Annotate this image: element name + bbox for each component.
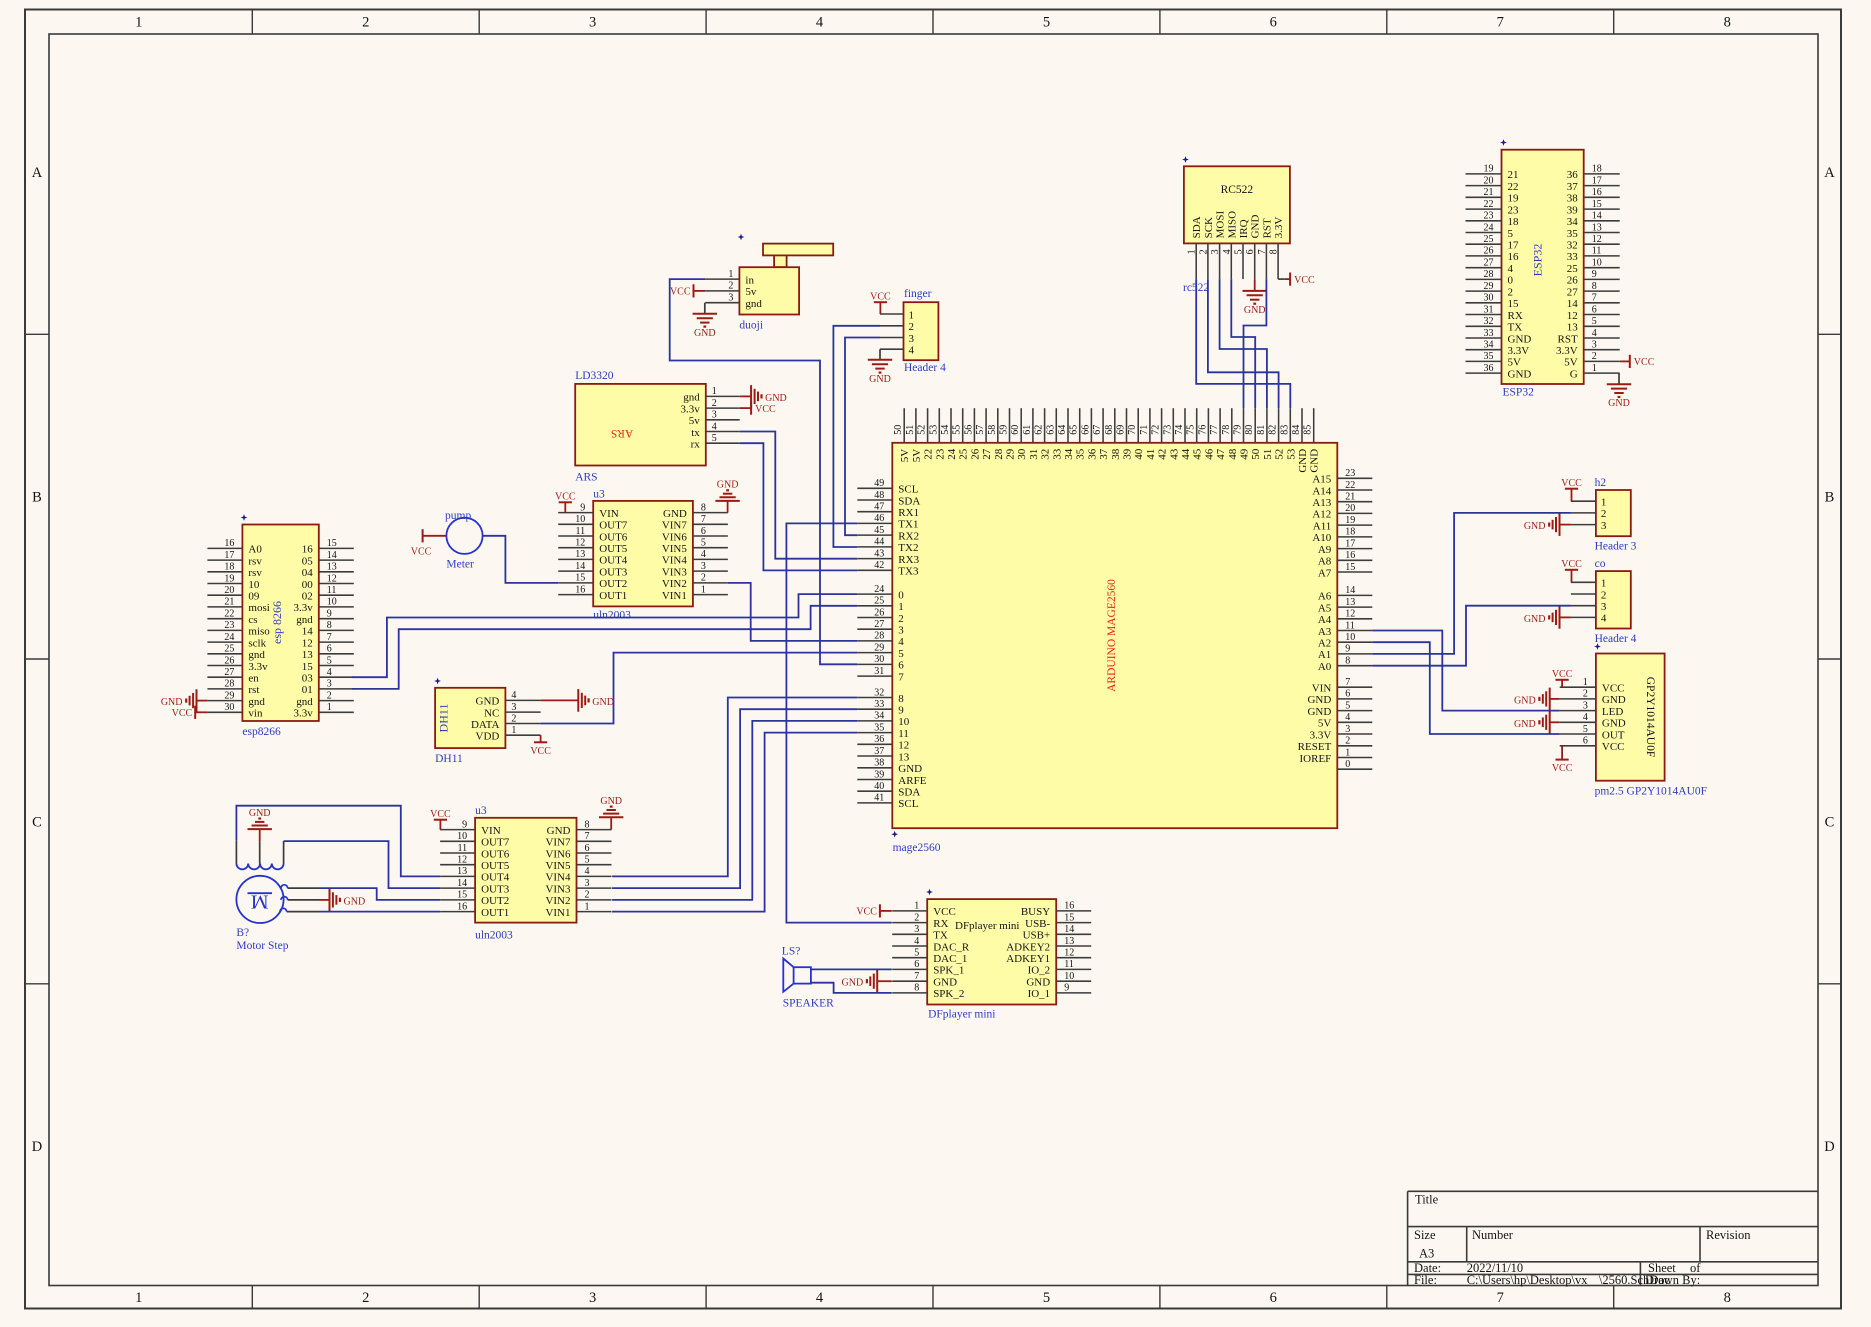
wire motor bottom terminal to u3-lower.16 OUT1 (280, 908, 287, 911)
svg-text:16: 16 (575, 584, 585, 595)
svg-text:OUT2: OUT2 (481, 895, 509, 907)
IC esp8266 (207, 514, 353, 738)
svg-text:3: 3 (327, 679, 332, 690)
svg-text:59: 59 (999, 425, 1010, 435)
GND port at motor middle terminal (329, 889, 331, 912)
svg-text:15: 15 (575, 573, 585, 584)
svg-text:43: 43 (1168, 448, 1180, 460)
RC522 bottom pins 1-8 (1195, 243, 1197, 279)
svg-text:40: 40 (1133, 448, 1145, 460)
svg-text:2: 2 (362, 1290, 369, 1306)
DFplayer left pins (892, 910, 927, 912)
svg-text:6: 6 (1245, 249, 1256, 254)
mage2560 right pins 14-8 A6-A0 (1337, 594, 1372, 596)
svg-text:36: 36 (874, 734, 884, 745)
wire RC522.4 MISO to mage2560.80 (1231, 279, 1255, 408)
VCC port below GP2Y pin 6 (1561, 746, 1563, 760)
svg-text:54: 54 (940, 425, 951, 435)
connector finger Header 4 (880, 288, 946, 374)
svg-text:85: 85 (1303, 425, 1314, 435)
svg-text:10: 10 (1345, 632, 1355, 643)
svg-text:5: 5 (1583, 724, 1588, 735)
svg-text:OUT6: OUT6 (481, 848, 510, 860)
svg-text:82: 82 (1268, 425, 1279, 435)
svg-text:5: 5 (701, 538, 706, 549)
wire ARS.5 rx to mage2560.42 TX3 (740, 443, 858, 570)
svg-text:1: 1 (701, 584, 706, 595)
svg-text:9: 9 (1592, 269, 1597, 280)
svg-text:24: 24 (1484, 222, 1494, 233)
svg-text:A5: A5 (1318, 602, 1332, 614)
svg-text:M: M (251, 890, 269, 912)
svg-text:2: 2 (1345, 736, 1350, 747)
svg-text:15: 15 (457, 890, 467, 901)
svg-text:GND: GND (1508, 368, 1532, 380)
svg-text:22: 22 (1508, 181, 1519, 193)
svg-text:Title: Title (1415, 1193, 1439, 1207)
svg-text:GND: GND (547, 825, 571, 837)
svg-text:1: 1 (327, 702, 332, 713)
svg-text:51: 51 (1262, 449, 1274, 460)
svg-text:esp8266: esp8266 (242, 726, 281, 738)
svg-text:16: 16 (1508, 251, 1520, 263)
svg-text:GND: GND (898, 763, 922, 775)
svg-text:38: 38 (874, 758, 884, 769)
svg-text:u3: u3 (475, 805, 487, 817)
svg-text:21: 21 (224, 597, 234, 608)
svg-text:21: 21 (1508, 169, 1519, 181)
DFplayer right pins (1056, 910, 1091, 912)
svg-text:01: 01 (302, 684, 313, 696)
svg-text:2: 2 (1508, 286, 1514, 298)
svg-text:11: 11 (1592, 246, 1602, 257)
svg-text:ADKEY1: ADKEY1 (1006, 953, 1050, 965)
svg-text:4: 4 (511, 690, 516, 701)
svg-text:A15: A15 (1312, 474, 1331, 486)
svg-text:5: 5 (585, 855, 590, 866)
wire u3 lower pin8 to GND (610, 817, 612, 829)
svg-text:ARDUINO MAGE2560: ARDUINO MAGE2560 (1106, 579, 1118, 692)
svg-text:3: 3 (909, 333, 915, 345)
svg-text:USB-: USB- (1025, 918, 1050, 930)
svg-text:A4: A4 (1318, 614, 1332, 626)
svg-text:OUT2: OUT2 (599, 578, 627, 590)
svg-text:44: 44 (1180, 448, 1192, 460)
svg-text:2: 2 (712, 398, 717, 409)
wire motor top terminal to u3-lower.15 OUT2 (281, 885, 288, 888)
svg-text:26: 26 (1484, 246, 1494, 257)
svg-text:VIN6: VIN6 (662, 531, 688, 543)
DFplayer body (927, 899, 1056, 1004)
svg-text:13: 13 (898, 751, 910, 763)
svg-text:GND: GND (476, 696, 500, 708)
svg-text:VIN6: VIN6 (545, 848, 571, 860)
svg-text:VCC: VCC (1552, 763, 1573, 774)
wire motor middle terminal to GND (281, 897, 288, 900)
svg-text:75: 75 (1186, 425, 1197, 435)
svg-text:34: 34 (1567, 216, 1579, 228)
svg-text:80: 80 (1244, 425, 1255, 435)
svg-text:2: 2 (1583, 689, 1588, 700)
svg-text:48: 48 (874, 490, 884, 501)
svg-text:13: 13 (1064, 936, 1074, 947)
svg-text:OUT5: OUT5 (481, 860, 510, 872)
wire u3-lower.2 VIN2 to mage2560.34 pin10 (612, 721, 857, 900)
svg-text:27: 27 (1484, 258, 1494, 269)
svg-text:50: 50 (1250, 448, 1262, 460)
ESP32 left pins (1466, 173, 1502, 175)
mage2560 star marker (891, 831, 898, 838)
svg-text:5: 5 (1345, 700, 1350, 711)
svg-text:6: 6 (1583, 736, 1588, 747)
svg-text:14: 14 (1592, 211, 1602, 222)
svg-text:VCC: VCC (1294, 275, 1315, 286)
wire coil right to u3-lower.14 OUT3 (283, 841, 285, 863)
svg-text:LS?: LS? (782, 946, 801, 958)
svg-text:3.3v: 3.3v (294, 708, 314, 720)
svg-text:48: 48 (1227, 448, 1239, 460)
svg-text:Header 4: Header 4 (904, 362, 946, 374)
svg-text:2: 2 (898, 613, 904, 625)
svg-text:LD3320: LD3320 (575, 370, 614, 382)
svg-text:3: 3 (1601, 520, 1607, 532)
svg-text:GND: GND (765, 393, 787, 404)
svg-text:23: 23 (1345, 468, 1355, 479)
svg-text:0: 0 (1345, 759, 1350, 770)
svg-text:4: 4 (898, 636, 904, 648)
svg-text:A8: A8 (1318, 556, 1332, 568)
svg-text:gnd: gnd (248, 649, 265, 661)
svg-text:9: 9 (1345, 644, 1350, 655)
svg-text:GND: GND (1026, 977, 1050, 989)
svg-text:16: 16 (224, 538, 234, 549)
svg-text:gnd: gnd (296, 696, 313, 708)
svg-text:BUSY: BUSY (1021, 906, 1050, 918)
svg-text:3.3V: 3.3V (1273, 217, 1285, 239)
svg-text:RX: RX (1508, 310, 1523, 322)
DH11 body (435, 688, 505, 748)
wire mage2560.10 A2 to GP2Y.5 OUT (1372, 642, 1559, 734)
svg-text:VCC: VCC (555, 492, 576, 503)
svg-text:Header 3: Header 3 (1595, 541, 1637, 553)
h2 body (1596, 490, 1631, 536)
svg-text:7: 7 (585, 831, 590, 842)
svg-text:40: 40 (874, 781, 884, 792)
svg-text:33: 33 (1051, 448, 1063, 460)
wire esp8266.3 01 to mage2560.25 pin1 (352, 606, 857, 689)
svg-text:A6: A6 (1318, 591, 1332, 603)
svg-text:DAC_1: DAC_1 (933, 953, 967, 965)
svg-text:3: 3 (1601, 601, 1607, 613)
svg-text:7: 7 (898, 671, 904, 683)
svg-text:A14: A14 (1312, 485, 1331, 497)
co pins 1-4 (1571, 581, 1596, 583)
svg-text:3.3V: 3.3V (1508, 345, 1530, 357)
svg-text:TX1: TX1 (898, 519, 918, 531)
svg-text:16: 16 (1592, 187, 1602, 198)
svg-text:5V: 5V (911, 449, 923, 463)
svg-text:3.3v: 3.3v (248, 661, 268, 673)
svg-text:74: 74 (1174, 425, 1185, 435)
svg-text:34: 34 (874, 711, 884, 722)
GND port at DH11 pin 4 (577, 689, 579, 712)
VCC port at u3 upper pin 9 (559, 501, 572, 503)
svg-text:TX: TX (933, 930, 948, 942)
svg-text:B: B (32, 490, 42, 506)
wire mage2560.11 A3 to GP2Y.3 LED (1372, 631, 1559, 711)
svg-text:10: 10 (327, 597, 337, 608)
svg-text:11: 11 (576, 526, 586, 537)
u3-upper left pins (558, 512, 593, 514)
duoji horn bar (763, 244, 833, 256)
svg-text:11: 11 (327, 585, 337, 596)
svg-text:GND: GND (1514, 719, 1536, 730)
mage2560 top pins 50-85 (903, 408, 905, 443)
column zone ticks (251, 10, 253, 35)
svg-text:8: 8 (1724, 15, 1731, 31)
svg-text:gnd: gnd (248, 696, 265, 708)
svg-text:SCL: SCL (898, 798, 918, 810)
svg-text:17: 17 (224, 550, 234, 561)
svg-text:mosi: mosi (248, 602, 269, 614)
svg-text:49: 49 (1239, 448, 1251, 460)
svg-text:ESP32: ESP32 (1531, 244, 1545, 277)
wire finger.2 to mage2560.44 TX2 (833, 326, 880, 547)
svg-text:co: co (1595, 558, 1606, 570)
ESP32 star marker (1500, 139, 1507, 146)
wire coil center tap to GND (259, 841, 261, 863)
svg-text:cs: cs (248, 614, 257, 626)
svg-text:pm2.5 GP2Y1014AU0F: pm2.5 GP2Y1014AU0F (1595, 786, 1707, 798)
svg-text:ADKEY2: ADKEY2 (1006, 941, 1050, 953)
svg-text:23: 23 (1508, 204, 1520, 216)
u3-upper body (593, 501, 693, 607)
svg-text:VCC: VCC (755, 404, 776, 415)
svg-text:VCC: VCC (1634, 357, 1655, 368)
svg-text:39: 39 (1567, 204, 1579, 216)
svg-text:GND: GND (1602, 694, 1626, 706)
svg-text:56: 56 (963, 425, 974, 435)
svg-text:64: 64 (1057, 425, 1068, 435)
svg-text:32: 32 (1484, 316, 1494, 327)
svg-text:12: 12 (1345, 609, 1355, 620)
svg-text:A: A (1824, 165, 1835, 181)
svg-text:4: 4 (1508, 263, 1514, 275)
svg-text:5: 5 (1234, 249, 1245, 254)
svg-text:78: 78 (1221, 425, 1232, 435)
svg-text:GND: GND (717, 480, 739, 491)
svg-text:17: 17 (1508, 240, 1520, 252)
svg-text:15: 15 (327, 538, 337, 549)
svg-text:22: 22 (923, 449, 935, 460)
svg-text:A13: A13 (1312, 497, 1331, 509)
svg-text:ARFE: ARFE (898, 775, 926, 787)
svg-text:4: 4 (1592, 328, 1597, 339)
svg-text:19: 19 (224, 573, 234, 584)
title block (1408, 1190, 1818, 1192)
svg-text:5V: 5V (1564, 357, 1578, 369)
svg-text:OUT3: OUT3 (599, 566, 628, 578)
svg-text:2: 2 (362, 15, 369, 31)
DH11 star marker (434, 678, 441, 685)
svg-text:28: 28 (224, 679, 234, 690)
svg-text:41: 41 (1145, 449, 1157, 460)
svg-text:15: 15 (1064, 912, 1074, 923)
svg-text:11: 11 (457, 843, 467, 854)
svg-text:VIN: VIN (599, 508, 619, 520)
svg-text:3: 3 (914, 924, 919, 935)
svg-text:62: 62 (1034, 425, 1045, 435)
svg-text:2: 2 (909, 321, 915, 333)
svg-text:5: 5 (1592, 316, 1597, 327)
esp8266 left pins (207, 547, 242, 549)
svg-text:h2: h2 (1595, 477, 1607, 489)
svg-text:A7: A7 (1318, 567, 1332, 579)
svg-text:5: 5 (1043, 1290, 1050, 1306)
svg-text:7: 7 (1497, 1290, 1504, 1306)
svg-text:3: 3 (712, 410, 717, 421)
svg-text:VCC: VCC (430, 809, 451, 820)
mage2560 right pins 7-0 power (1337, 686, 1372, 688)
svg-text:83: 83 (1279, 425, 1290, 435)
svg-text:OUT4: OUT4 (599, 555, 628, 567)
svg-text:SDA: SDA (898, 495, 920, 507)
svg-text:6: 6 (898, 660, 904, 672)
svg-text:68: 68 (1104, 425, 1115, 435)
svg-text:3: 3 (589, 15, 596, 31)
mage2560 left pins 49-42 SCL SDA RX1 TX1 RX2 TX2 RX3 TX3 (857, 487, 892, 489)
mage2560 body (892, 443, 1337, 828)
svg-text:18: 18 (1592, 164, 1602, 175)
wire esp8266.4 03 to mage2560.24 pin0 (352, 594, 857, 677)
svg-text:3: 3 (585, 878, 590, 889)
esp8266 right pins (319, 547, 354, 549)
svg-text:OUT1: OUT1 (599, 590, 627, 602)
svg-text:34: 34 (1063, 448, 1075, 460)
svg-text:DH11: DH11 (437, 704, 451, 733)
svg-text:4: 4 (585, 866, 590, 877)
svg-text:D: D (1824, 1139, 1834, 1155)
svg-text:1: 1 (1187, 249, 1198, 254)
svg-text:sclk: sclk (248, 637, 266, 649)
svg-text:14: 14 (1567, 298, 1579, 310)
svg-text:TX2: TX2 (898, 542, 918, 554)
svg-text:27: 27 (1567, 286, 1579, 298)
svg-text:36: 36 (1086, 448, 1098, 460)
svg-text:13: 13 (575, 549, 585, 560)
svg-text:57: 57 (975, 425, 986, 435)
svg-text:A3: A3 (1419, 1247, 1434, 1261)
svg-text:OUT4: OUT4 (481, 872, 510, 884)
svg-text:VCC: VCC (530, 746, 551, 757)
wire u3-lower.3 VIN3 to mage2560.33 pin9 (612, 709, 857, 888)
svg-text:73: 73 (1162, 425, 1173, 435)
svg-text:GND: GND (1309, 449, 1321, 473)
svg-text:3: 3 (728, 293, 733, 304)
svg-text:DFplayer mini: DFplayer mini (955, 920, 1019, 932)
svg-text:gnd: gnd (683, 392, 700, 404)
GND port at DFplayer pin 7 (876, 970, 878, 993)
GND port above motor coil (248, 828, 272, 830)
VCC port at u3 lower pin 9 (434, 819, 447, 821)
svg-text:LED: LED (1602, 706, 1623, 718)
svg-text:6: 6 (701, 526, 706, 537)
svg-text:2: 2 (1601, 508, 1607, 520)
svg-text:NC: NC (484, 707, 499, 719)
IC u3 uln2003 lower (440, 805, 611, 942)
svg-text:7: 7 (914, 971, 919, 982)
svg-text:rx: rx (691, 439, 701, 451)
wire u3 upper pin8 to GND (727, 501, 729, 513)
svg-text:20: 20 (1345, 503, 1355, 514)
svg-text:70: 70 (1127, 425, 1138, 435)
svg-text:Drawn By:: Drawn By: (1645, 1273, 1700, 1287)
svg-text:4: 4 (1601, 613, 1607, 625)
svg-text:B?: B? (236, 927, 249, 939)
svg-text:13: 13 (1345, 597, 1355, 608)
svg-text:13: 13 (1592, 222, 1602, 233)
svg-text:DATA: DATA (471, 719, 500, 731)
svg-text:76: 76 (1197, 425, 1208, 435)
VCC port at co pin 1 (1565, 569, 1578, 571)
svg-text:TX: TX (1508, 322, 1523, 334)
duoji body (739, 267, 799, 314)
svg-text:duoji: duoji (739, 320, 763, 332)
GND port at RC522 pin 6 (1254, 279, 1256, 291)
svg-text:81: 81 (1256, 425, 1267, 435)
svg-text:50: 50 (893, 425, 904, 435)
svg-text:MOSI: MOSI (1215, 211, 1227, 239)
svg-text:42: 42 (1157, 449, 1169, 460)
svg-text:u3: u3 (593, 489, 605, 501)
svg-text:28: 28 (1484, 269, 1494, 280)
speaker LS? (782, 946, 834, 1010)
speaker box (794, 967, 811, 983)
svg-text:20: 20 (1484, 175, 1494, 186)
svg-text:3: 3 (701, 561, 706, 572)
svg-text:rst: rst (248, 684, 259, 696)
svg-text:39: 39 (874, 769, 884, 780)
svg-text:26: 26 (969, 448, 981, 460)
svg-text:1: 1 (1601, 497, 1607, 509)
svg-text:1: 1 (1345, 747, 1350, 758)
svg-text:RX2: RX2 (898, 530, 919, 542)
svg-text:OUT6: OUT6 (599, 531, 628, 543)
svg-text:37: 37 (1098, 448, 1110, 460)
svg-text:38: 38 (1567, 193, 1579, 205)
svg-text:GND: GND (1250, 215, 1262, 239)
svg-text:26: 26 (224, 655, 234, 666)
svg-text:09: 09 (248, 591, 260, 603)
wire RC522.2 SCK to mage2560.82 (1208, 279, 1279, 408)
duoji pins 1-3 (705, 278, 739, 280)
svg-text:OUT3: OUT3 (481, 883, 510, 895)
svg-text:79: 79 (1233, 425, 1244, 435)
svg-text:tx: tx (691, 427, 700, 439)
svg-text:4: 4 (712, 421, 717, 432)
svg-text:04: 04 (302, 567, 314, 579)
svg-text:2: 2 (728, 281, 733, 292)
svg-text:32: 32 (874, 687, 884, 698)
svg-text:3: 3 (1210, 249, 1221, 254)
svg-text:47: 47 (874, 502, 884, 513)
GND port at GP2Y pin 2 (1549, 688, 1551, 711)
svg-text:GND: GND (1524, 614, 1546, 625)
GP2Y body (1596, 654, 1665, 781)
svg-text:RX1: RX1 (898, 507, 919, 519)
svg-text:OUT7: OUT7 (599, 520, 628, 532)
svg-text:5: 5 (327, 655, 332, 666)
